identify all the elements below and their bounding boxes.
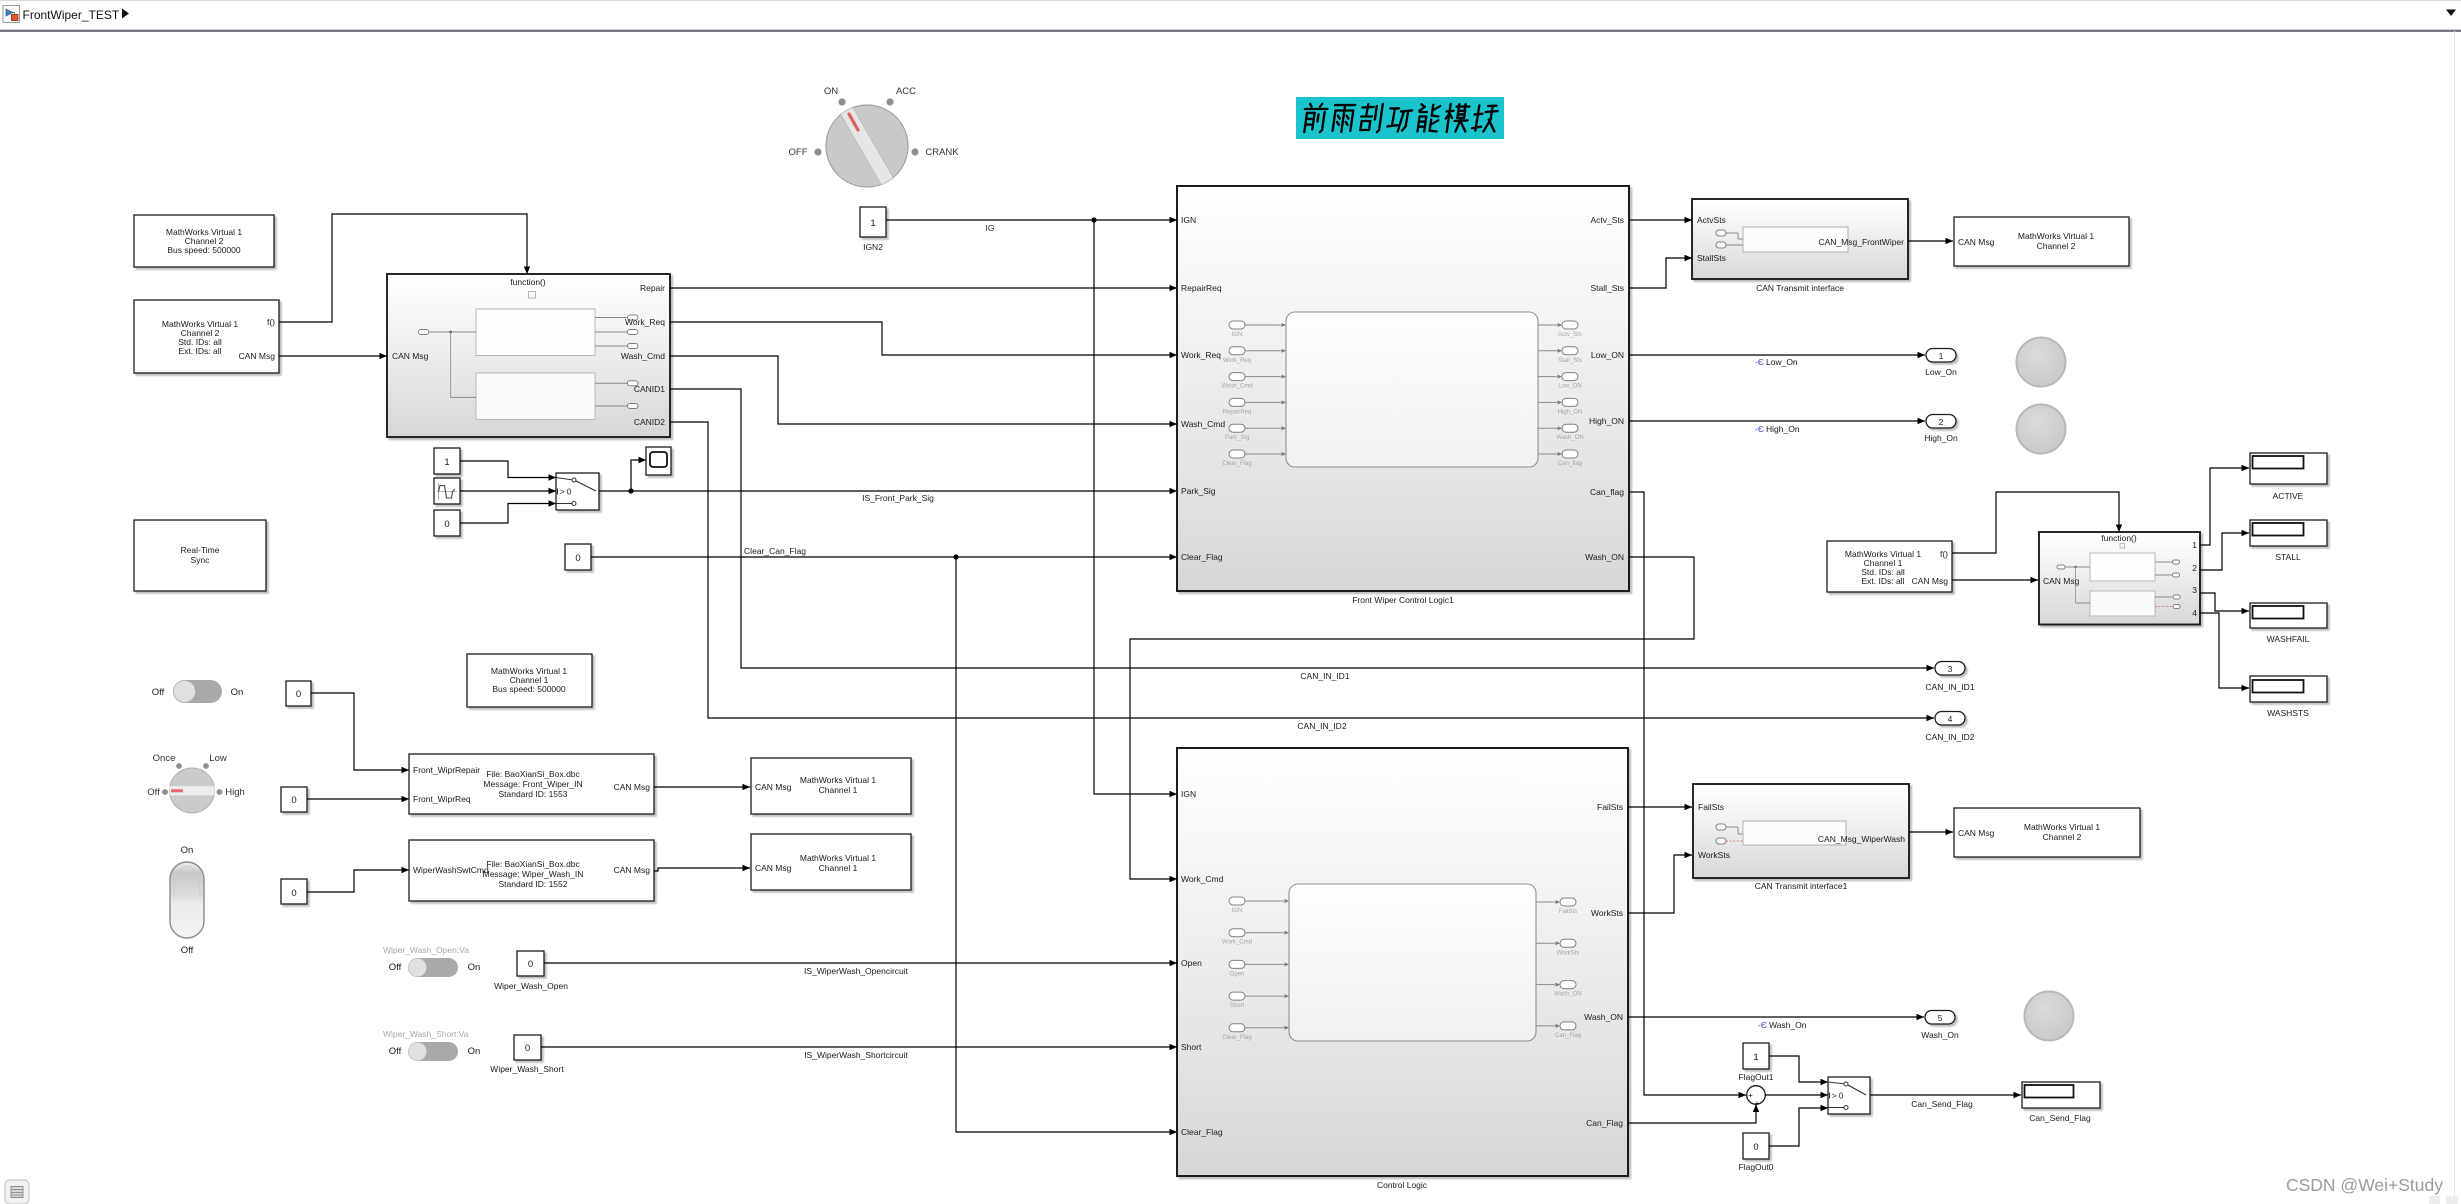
wire FailSts xyxy=(1628,806,1692,808)
outport 3 CAN_IN_ID1 xyxy=(1935,662,1965,676)
svg-text:0: 0 xyxy=(291,888,296,899)
svg-text:CAN Msg: CAN Msg xyxy=(755,782,792,792)
svg-text:WorkSts: WorkSts xyxy=(1557,950,1580,956)
svg-text:CAN Transmit interface: CAN Transmit interface xyxy=(1756,283,1844,293)
title glyph 5 xyxy=(1416,104,1440,131)
svg-text:> 0: > 0 xyxy=(1832,1092,1844,1101)
title glyph 4 xyxy=(1387,108,1413,131)
svg-text:Sync: Sync xyxy=(191,555,211,565)
svg-text:Wash_ON: Wash_ON xyxy=(1556,435,1583,441)
svg-text:0: 0 xyxy=(1753,1142,1758,1153)
svg-text:Standard ID: 1553: Standard ID: 1553 xyxy=(499,789,568,799)
svg-text:3: 3 xyxy=(2192,585,2197,595)
svg-text:CAN Msg: CAN Msg xyxy=(2043,576,2080,586)
lamp Low xyxy=(2017,338,2066,387)
svg-text:Can_flag: Can_flag xyxy=(1558,461,1582,467)
wire switch to Park_Sig xyxy=(599,490,1177,492)
svg-text:Park_Sig: Park_Sig xyxy=(1225,435,1249,441)
svg-text:On: On xyxy=(468,962,481,973)
svg-text:Standard ID: 1552: Standard ID: 1552 xyxy=(499,879,568,889)
model icon xyxy=(3,6,20,23)
svg-text:High_ON: High_ON xyxy=(1589,416,1624,426)
title glyph 3 xyxy=(1359,104,1383,132)
svg-text:Work_Req: Work_Req xyxy=(625,317,665,327)
wire Can_Send_Flag xyxy=(1870,1094,2021,1096)
data browser button xyxy=(5,1180,29,1204)
svg-text:function(): function() xyxy=(510,277,546,287)
subsystem CAN Transmit interface1 xyxy=(1693,784,1909,878)
svg-text:High_ON: High_ON xyxy=(1558,409,1583,415)
svg-text:Wash_ON: Wash_ON xyxy=(1554,992,1581,998)
wire branch to scope xyxy=(631,460,646,491)
svg-text:Wash_Cmd: Wash_Cmd xyxy=(621,351,665,361)
svg-text:Clear_Flag: Clear_Flag xyxy=(1222,461,1251,467)
svg-text:Work_Cmd: Work_Cmd xyxy=(1222,940,1252,946)
svg-text:IGN2: IGN2 xyxy=(863,242,883,252)
svg-text:0: 0 xyxy=(528,959,533,970)
title glyph 6 xyxy=(1444,104,1470,132)
wire f() to function-call subsystem xyxy=(279,214,527,322)
svg-text:CAN Msg: CAN Msg xyxy=(614,865,651,875)
wire IG branch down to Control Logic IGN xyxy=(1094,220,1177,794)
svg-text:Stall_Sts: Stall_Sts xyxy=(1558,358,1582,364)
svg-text:0: 0 xyxy=(296,689,301,700)
svg-text:Stall_Sts: Stall_Sts xyxy=(1590,283,1624,293)
svg-text:Wiper_Wash_Short: Wiper_Wash_Short xyxy=(490,1064,564,1074)
wire port2 to STALL xyxy=(2200,533,2249,570)
svg-text:Actv_Sts: Actv_Sts xyxy=(1590,215,1624,225)
svg-text:0: 0 xyxy=(575,553,580,564)
svg-text:Wash_On: Wash_On xyxy=(1921,1030,1959,1040)
constant Wiper_Wash_Short xyxy=(514,1035,541,1060)
svg-text:Repair: Repair xyxy=(640,283,665,293)
svg-text:IS_WiperWash_Shortcircuit: IS_WiperWash_Shortcircuit xyxy=(804,1050,908,1060)
scope block xyxy=(646,447,671,475)
wire IS_WiperWash_Opencircuit xyxy=(544,962,1177,964)
wire FlagOut1 to switch xyxy=(1769,1056,1828,1082)
constant 0 (park) xyxy=(434,510,460,536)
svg-text:IGN: IGN xyxy=(1232,332,1243,338)
wire f() to function subsystem (right) xyxy=(1952,492,2119,553)
display ACTIVE xyxy=(2250,453,2327,484)
sum block xyxy=(1747,1086,1766,1105)
svg-text:High_On: High_On xyxy=(1924,433,1958,443)
wire port3 to WASHFAIL xyxy=(2200,593,2249,611)
wire Clear_Can_Flag xyxy=(591,556,1177,558)
svg-text:Wash_ON: Wash_ON xyxy=(1584,1012,1623,1022)
svg-text:Real-Time: Real-Time xyxy=(181,545,220,555)
svg-text:CAN_IN_ID1: CAN_IN_ID1 xyxy=(1300,671,1349,681)
svg-text:Work_Req: Work_Req xyxy=(1223,358,1251,364)
title glyph 1 xyxy=(1302,104,1329,132)
wire Low_ON to outport xyxy=(1629,354,1925,356)
svg-text:FlagOut0: FlagOut0 xyxy=(1739,1162,1774,1172)
svg-text:CAN Msg: CAN Msg xyxy=(755,863,792,873)
svg-text:Low: Low xyxy=(209,753,227,764)
wire sine to switch xyxy=(460,490,556,492)
transmit interface inner xyxy=(1716,230,1726,236)
svg-text:File: BaoXianSi_Box.dbc: File: BaoXianSi_Box.dbc xyxy=(486,769,580,779)
wire to CAN transmit ch2 (lower) xyxy=(1909,831,1953,833)
svg-text:CANID2: CANID2 xyxy=(634,417,665,427)
block CAN Configuration Channel 1 xyxy=(467,654,592,707)
svg-text:Low_On: Low_On xyxy=(1766,357,1798,367)
outport 5 Wash_On xyxy=(1925,1011,1955,1025)
svg-text:CAN Msg: CAN Msg xyxy=(1912,576,1949,586)
svg-text:Wiper_Wash_Open:Va: Wiper_Wash_Open:Va xyxy=(383,945,469,955)
svg-text:Wash_ON: Wash_ON xyxy=(1585,552,1624,562)
svg-text:MathWorks Virtual 1: MathWorks Virtual 1 xyxy=(2018,231,2094,241)
block CAN Transmit Channel 2 (lower) xyxy=(1954,808,2140,857)
svg-text:FailSts: FailSts xyxy=(1597,802,1623,812)
wire CAN Msg to unpack subsystem xyxy=(279,355,387,357)
block CAN Transmit Channel 1 (lower) xyxy=(751,834,911,890)
wire to CAN transmit ch2 (upper) xyxy=(1908,240,1953,242)
svg-text:Wiper_Wash_Open: Wiper_Wash_Open xyxy=(494,981,568,991)
svg-text:IG: IG xyxy=(986,223,995,233)
svg-text:1: 1 xyxy=(1939,351,1944,361)
svg-text:0: 0 xyxy=(525,1043,530,1054)
svg-text:WorkSts: WorkSts xyxy=(1698,850,1730,860)
svg-text:2: 2 xyxy=(2192,563,2197,573)
svg-text:Off: Off xyxy=(389,1046,402,1057)
svg-text:Front_WiprRepair: Front_WiprRepair xyxy=(413,765,480,775)
title banner 前雨刮功能模块 xyxy=(1296,97,1504,139)
inner chart (Control Logic) xyxy=(1289,884,1536,1041)
svg-text:Channel 2: Channel 2 xyxy=(2043,832,2082,842)
svg-text:WASHFAIL: WASHFAIL xyxy=(2267,634,2310,644)
constant FlagOut1 value 1 xyxy=(1743,1043,1769,1069)
svg-text:FailSts: FailSts xyxy=(1698,802,1724,812)
svg-text:f(): f() xyxy=(1940,549,1948,559)
svg-text:Wash_On: Wash_On xyxy=(1769,1020,1807,1030)
inner chart (FWCL1) xyxy=(1286,312,1538,467)
svg-text:On: On xyxy=(231,687,244,698)
svg-text:CAN Msg: CAN Msg xyxy=(239,351,276,361)
svg-text:ACTIVE: ACTIVE xyxy=(2273,491,2304,501)
svg-text:Can_Send_Flag: Can_Send_Flag xyxy=(1911,1099,1973,1109)
svg-text:4: 4 xyxy=(2192,608,2197,618)
svg-text:On: On xyxy=(181,845,194,856)
wire sum to switch xyxy=(1765,1094,1828,1096)
svg-text:OFF: OFF xyxy=(789,147,808,158)
svg-text:CAN Msg: CAN Msg xyxy=(614,782,651,792)
svg-text:CSDN @Wei+Study: CSDN @Wei+Study xyxy=(2286,1175,2443,1195)
svg-text:Once: Once xyxy=(153,753,176,764)
svg-text:MathWorks Virtual 1: MathWorks Virtual 1 xyxy=(800,775,876,785)
svg-text:Low_ON: Low_ON xyxy=(1591,350,1624,360)
svg-text:WiperWashSwtCmd: WiperWashSwtCmd xyxy=(413,865,489,875)
wire Stall_Sts xyxy=(1629,258,1692,288)
wire pack1 to transmit1 xyxy=(654,786,750,788)
block CAN Receive Channel 1 xyxy=(1827,541,1952,592)
svg-text:Actv_Sts: Actv_Sts xyxy=(1558,332,1582,338)
svg-text:Channel 1: Channel 1 xyxy=(819,785,858,795)
block CAN Receive Channel 2 xyxy=(134,300,279,373)
outport 4 CAN_IN_ID2 xyxy=(1935,712,1965,726)
svg-text:CAN Transmit interface1: CAN Transmit interface1 xyxy=(1755,881,1848,891)
svg-text:RepairReq: RepairReq xyxy=(1181,283,1222,293)
right scrollbar track xyxy=(2454,31,2456,1204)
switch block (park sig) xyxy=(556,473,599,510)
svg-text:ON: ON xyxy=(824,86,838,97)
wire const1 to switch xyxy=(460,461,556,478)
svg-text:Message: Wiper_Wash_IN: Message: Wiper_Wash_IN xyxy=(483,869,584,879)
svg-text:Off: Off xyxy=(389,962,402,973)
svg-text:CAN_IN_ID2: CAN_IN_ID2 xyxy=(1297,721,1346,731)
svg-text:ActvSts: ActvSts xyxy=(1697,215,1726,225)
wire Wash_ON loop to Work_Cmd xyxy=(1130,557,1694,879)
svg-text:1: 1 xyxy=(2192,540,2197,550)
svg-text:3: 3 xyxy=(1948,664,1953,674)
svg-text:Off: Off xyxy=(152,687,165,698)
junction scope branch xyxy=(628,488,633,493)
wire CANID2 to CAN_IN_ID2 xyxy=(670,422,1934,718)
title glyph 7 xyxy=(1472,105,1499,131)
svg-text:Open: Open xyxy=(1181,958,1202,968)
breadcrumb caret xyxy=(122,9,129,19)
svg-text:Front_WiprReq: Front_WiprReq xyxy=(413,794,471,804)
svg-text:5: 5 xyxy=(1938,1013,1943,1023)
title glyph 2 xyxy=(1331,105,1355,132)
wire IG xyxy=(886,219,1177,221)
constant FlagOut0 value 0 xyxy=(1743,1133,1769,1159)
wire to Front_WiprReq xyxy=(307,798,409,800)
svg-text:Short: Short xyxy=(1181,1042,1202,1052)
outport 1 Low_On xyxy=(1926,349,1956,363)
display WASHSTS xyxy=(2250,676,2327,702)
svg-text:1: 1 xyxy=(1753,1052,1758,1063)
display WASHFAIL xyxy=(2250,603,2327,628)
constant 1 xyxy=(434,448,460,474)
svg-text:Control Logic: Control Logic xyxy=(1377,1180,1428,1190)
svg-text:1: 1 xyxy=(870,218,875,229)
svg-text:Clear_Can_Flag: Clear_Can_Flag xyxy=(744,546,806,556)
wire port1 to ACTIVE xyxy=(2200,468,2249,545)
lamp High xyxy=(2017,405,2066,454)
svg-text:Low_ON: Low_ON xyxy=(1558,384,1581,390)
svg-text:Wiper_Wash_Short:Va: Wiper_Wash_Short:Va xyxy=(383,1029,469,1039)
wire High_ON to outport xyxy=(1629,420,1925,422)
block CAN Transmit Channel 1 (upper) xyxy=(751,758,911,814)
constant 0 -> WiperWashSwtCmd xyxy=(281,879,307,904)
sine wave source xyxy=(434,478,460,504)
svg-text:Wash_Cmd: Wash_Cmd xyxy=(1221,384,1252,390)
wire Work_Req xyxy=(670,322,1177,355)
svg-text:Work_Cmd: Work_Cmd xyxy=(1181,874,1224,884)
svg-text:CAN_IN_ID2: CAN_IN_ID2 xyxy=(1925,732,1974,742)
svg-text:f(): f() xyxy=(267,317,275,327)
svg-text:IGN: IGN xyxy=(1181,789,1196,799)
svg-text:Short: Short xyxy=(1230,1003,1245,1009)
svg-text:CAN_Msg_WiperWash: CAN_Msg_WiperWash xyxy=(1818,834,1905,844)
svg-text:Wash_Cmd: Wash_Cmd xyxy=(1181,419,1225,429)
wire port4 to WASHSTS xyxy=(2200,613,2249,688)
svg-text:Can_Flag: Can_Flag xyxy=(1555,1033,1581,1039)
lamp Wash xyxy=(2025,992,2074,1041)
svg-text:On: On xyxy=(468,1046,481,1057)
svg-text:function(): function() xyxy=(2101,533,2137,543)
rotary switch IGN (OFF/ON/ACC/CRANK) xyxy=(789,86,960,187)
transmit interface1 inner xyxy=(1716,824,1726,830)
subsystem Control Logic xyxy=(1177,748,1628,1176)
svg-text:1: 1 xyxy=(444,457,449,468)
wire Actv_Sts xyxy=(1629,219,1692,221)
wire FlagOut0 to switch xyxy=(1769,1108,1828,1146)
display Can_Send_Flag xyxy=(2022,1082,2100,1108)
svg-text:WorkSts: WorkSts xyxy=(1591,908,1623,918)
wire CANID1 to CAN_IN_ID1 xyxy=(670,389,1934,668)
breadcrumb bar xyxy=(0,0,2461,30)
svg-text:Low_On: Low_On xyxy=(1925,367,1957,377)
switch block (flag) xyxy=(1828,1077,1870,1114)
svg-text:IGN: IGN xyxy=(1232,908,1243,914)
svg-text:-Є: -Є xyxy=(1758,1020,1767,1030)
svg-text:IGN: IGN xyxy=(1181,215,1196,225)
svg-text:Channel 1: Channel 1 xyxy=(819,863,858,873)
svg-text:High: High xyxy=(225,787,245,798)
subsystem function() CAN unpack (right) xyxy=(2039,532,2200,625)
wire CAN Msg to function subsystem (right) xyxy=(1952,579,2038,581)
wire to WiperWashSwtCmd xyxy=(307,870,409,892)
svg-text:Off: Off xyxy=(181,945,194,956)
svg-text:CAN Msg: CAN Msg xyxy=(1958,237,1995,247)
svg-text:Off: Off xyxy=(147,787,160,798)
constant 0 (clear flag) xyxy=(565,544,591,570)
wire to Front_WiprRepair xyxy=(311,693,409,770)
wire pack2 to transmit2 xyxy=(654,868,750,871)
svg-text:IS_Front_Park_Sig: IS_Front_Park_Sig xyxy=(862,493,934,503)
scrollbar corner xyxy=(2429,1196,2440,1204)
junction clear flag xyxy=(953,554,958,559)
svg-text:Clear_Flag: Clear_Flag xyxy=(1222,1035,1251,1041)
wire Repair to RepairReq xyxy=(670,287,1177,289)
svg-text:Front Wiper Control Logic1: Front Wiper Control Logic1 xyxy=(1352,595,1454,605)
svg-text:2: 2 xyxy=(1939,417,1944,427)
svg-text:Park_Sig: Park_Sig xyxy=(1181,486,1216,496)
svg-text:RepairReq: RepairReq xyxy=(1223,409,1252,415)
outport 2 High_On xyxy=(1926,415,1956,429)
svg-text:Bus speed: 500000: Bus speed: 500000 xyxy=(167,245,241,255)
constant IGN2 value 1 xyxy=(860,207,886,237)
junction IG branch xyxy=(1091,217,1096,222)
svg-text:0: 0 xyxy=(444,519,449,530)
inner diagram (right unpack) xyxy=(2090,553,2155,581)
unpack inner diagram xyxy=(418,309,638,420)
svg-text:Bus speed: 500000: Bus speed: 500000 xyxy=(492,684,566,694)
block CAN Transmit Channel 2 (upper) xyxy=(1954,217,2129,266)
wire const0 to switch xyxy=(460,504,556,524)
constant 0 -> Front_WiprRepair xyxy=(286,681,311,706)
svg-text:Clear_Flag: Clear_Flag xyxy=(1181,1127,1223,1137)
block Real-Time Sync xyxy=(134,520,266,591)
wire Can_Flag to sum bottom xyxy=(1628,1105,1756,1124)
display STALL xyxy=(2250,520,2327,546)
svg-text:STALL: STALL xyxy=(2275,552,2301,562)
svg-text:FrontWiper_TEST: FrontWiper_TEST xyxy=(23,8,120,22)
svg-text:ACC: ACC xyxy=(896,86,916,97)
svg-text:CAN Msg: CAN Msg xyxy=(392,351,429,361)
wire WorkSts xyxy=(1628,855,1692,913)
svg-text:CAN_IN_ID1: CAN_IN_ID1 xyxy=(1925,682,1974,692)
subsystem CAN Transmit interface xyxy=(1692,199,1908,279)
svg-text:Ext. IDs: all: Ext. IDs: all xyxy=(179,346,222,356)
block CAN Pack Front_Wiper_IN xyxy=(409,754,654,814)
block CAN Pack Wiper_Wash_IN xyxy=(409,840,654,901)
svg-text:-Є: -Є xyxy=(1755,424,1764,434)
constant Wiper_Wash_Open xyxy=(517,951,544,976)
svg-text:Can_Send_Flag: Can_Send_Flag xyxy=(2029,1113,2091,1123)
svg-text:0: 0 xyxy=(291,795,296,806)
svg-text:4: 4 xyxy=(1948,714,1953,724)
subsystem function() CAN unpack xyxy=(387,274,670,437)
wire IS_WiperWash_Shortcircuit xyxy=(541,1046,1177,1048)
svg-text:Message: Front_Wiper_IN: Message: Front_Wiper_IN xyxy=(483,779,582,789)
svg-text:FlagOut1: FlagOut1 xyxy=(1739,1072,1774,1082)
block CAN Configuration Channel 2 xyxy=(134,215,274,267)
svg-text:IS_WiperWash_Opencircuit: IS_WiperWash_Opencircuit xyxy=(804,966,909,976)
svg-text:CAN_Msg_FrontWiper: CAN_Msg_FrontWiper xyxy=(1819,237,1905,247)
svg-text:Ext. IDs: all: Ext. IDs: all xyxy=(1862,576,1905,586)
subsystem Front Wiper Control Logic1 xyxy=(1177,186,1629,591)
svg-text:Can_flag: Can_flag xyxy=(1590,487,1624,497)
svg-text:CRANK: CRANK xyxy=(925,147,959,158)
svg-text:Channel 2: Channel 2 xyxy=(2037,241,2076,251)
top-right dropdown arrow xyxy=(2446,10,2456,17)
svg-text:High_On: High_On xyxy=(1766,424,1800,434)
svg-text:File: BaoXianSi_Box.dbc: File: BaoXianSi_Box.dbc xyxy=(486,859,580,869)
wire Wash_ON to outport 5 xyxy=(1628,1016,1924,1018)
wire Can_flag loop down xyxy=(1629,492,1746,1095)
wire clear flag branch to Control Logic xyxy=(956,557,1177,1132)
constant 0 -> Front_WiprReq xyxy=(281,787,307,812)
svg-text:FailSts: FailSts xyxy=(1559,909,1577,915)
svg-text:> 0: > 0 xyxy=(560,488,572,497)
svg-text:+: + xyxy=(1748,1091,1753,1100)
svg-text:Can_Flag: Can_Flag xyxy=(1586,1118,1623,1128)
svg-text:Clear_Flag: Clear_Flag xyxy=(1181,552,1223,562)
svg-text:MathWorks Virtual 1: MathWorks Virtual 1 xyxy=(800,853,876,863)
svg-text:-Є: -Є xyxy=(1755,357,1764,367)
wire Wash_Cmd xyxy=(670,356,1177,424)
svg-text:Open: Open xyxy=(1230,971,1245,977)
svg-text:StallSts: StallSts xyxy=(1697,253,1726,263)
svg-text:CANID1: CANID1 xyxy=(634,384,665,394)
svg-text:MathWorks Virtual 1: MathWorks Virtual 1 xyxy=(2024,822,2100,832)
svg-text:WASHSTS: WASHSTS xyxy=(2267,708,2309,718)
svg-text:Work_Req: Work_Req xyxy=(1181,350,1221,360)
svg-text:CAN Msg: CAN Msg xyxy=(1958,828,1995,838)
rotary switch small (Once/Low/Off/High) xyxy=(147,753,245,813)
